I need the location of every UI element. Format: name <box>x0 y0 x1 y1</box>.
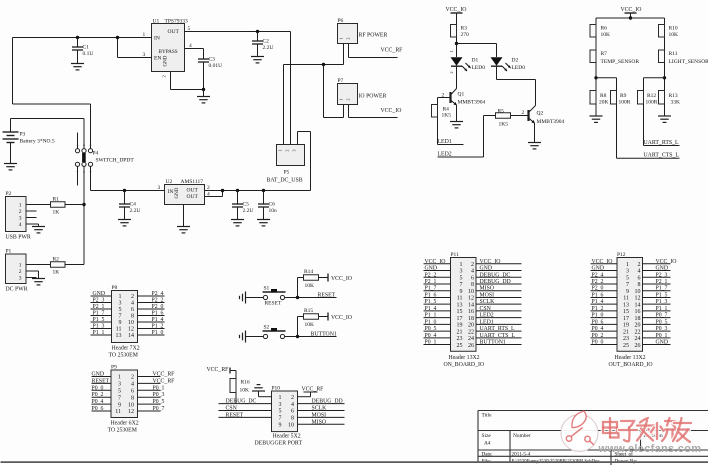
svg-text:P0_6: P0_6 <box>92 406 104 412</box>
svg-text:8: 8 <box>131 314 134 320</box>
svg-text:P2_1: P2_1 <box>93 304 105 310</box>
svg-text:TEMP_SENSOR: TEMP_SENSOR <box>601 59 640 65</box>
svg-text:15: 15 <box>457 309 463 315</box>
svg-text:15: 15 <box>623 309 629 315</box>
svg-text:P0_2: P0_2 <box>592 333 604 339</box>
svg-text:C3: C3 <box>209 57 216 63</box>
svg-text:UART_RTS_L: UART_RTS_L <box>480 326 516 332</box>
svg-text:UART_CTS_L: UART_CTS_L <box>480 333 516 339</box>
svg-text:3: 3 <box>279 402 282 408</box>
svg-text:3: 3 <box>19 276 22 282</box>
svg-text:R1: R1 <box>53 197 60 203</box>
svg-text:P2_2: P2_2 <box>152 298 164 304</box>
svg-text:P0_4: P0_4 <box>592 326 604 332</box>
svg-text:www.elecfans.com: www.elecfans.com <box>598 443 702 455</box>
svg-text:2: 2 <box>162 75 167 77</box>
svg-text:SCLK: SCLK <box>312 406 328 412</box>
svg-text:2: 2 <box>131 294 134 300</box>
svg-text:2.2U: 2.2U <box>263 45 274 51</box>
svg-text:P1_2: P1_2 <box>152 324 164 330</box>
svg-text:Header 13X2: Header 13X2 <box>615 355 646 361</box>
svg-text:GND: GND <box>92 372 105 378</box>
svg-text:P6: P6 <box>338 18 344 24</box>
svg-text:VCC_IO: VCC_IO <box>446 7 467 13</box>
svg-text:VCC_RF: VCC_RF <box>153 378 176 384</box>
svg-text:P0_6: P0_6 <box>592 319 604 325</box>
svg-text:P0_3: P0_3 <box>656 326 668 332</box>
svg-text:10K: 10K <box>305 283 315 289</box>
svg-text:VCC_IO: VCC_IO <box>381 108 402 114</box>
svg-text:GND: GND <box>425 266 438 272</box>
svg-text:12: 12 <box>468 296 474 302</box>
svg-text:Size: Size <box>482 433 492 439</box>
svg-text:P2_2: P2_2 <box>592 279 604 285</box>
svg-text:P2_1: P2_1 <box>656 279 668 285</box>
svg-text:LED0: LED0 <box>512 65 526 71</box>
svg-text:2011-5-4: 2011-5-4 <box>512 452 531 458</box>
svg-text:P1_1: P1_1 <box>656 306 668 312</box>
svg-text:RESET: RESET <box>318 293 336 299</box>
svg-text:P4: P4 <box>93 151 99 157</box>
svg-text:23: 23 <box>623 336 629 342</box>
svg-text:3: 3 <box>460 269 463 275</box>
svg-text:Date:: Date: <box>482 452 494 458</box>
svg-text:S1: S1 <box>264 286 270 292</box>
svg-text:22: 22 <box>635 329 641 335</box>
svg-text:R12: R12 <box>647 93 656 99</box>
svg-text:10K: 10K <box>240 388 250 394</box>
svg-text:10K: 10K <box>601 32 611 38</box>
svg-text:LED2: LED2 <box>480 313 494 319</box>
svg-text:P1_6: P1_6 <box>425 292 437 298</box>
svg-text:2: 2 <box>285 150 290 152</box>
svg-text:RESET: RESET <box>92 378 110 384</box>
svg-text:11: 11 <box>115 409 121 415</box>
svg-text:R8: R8 <box>600 93 607 99</box>
svg-text:16: 16 <box>468 309 474 315</box>
svg-text:21: 21 <box>623 329 629 335</box>
svg-text:3: 3 <box>118 382 121 388</box>
svg-text:DEBUG_DD: DEBUG_DD <box>480 279 511 285</box>
svg-text:14: 14 <box>635 302 641 308</box>
svg-text:6: 6 <box>471 275 474 281</box>
svg-text:OUT: OUT <box>187 194 199 200</box>
svg-text:CSN: CSN <box>226 406 238 412</box>
svg-text:DEBUG_DD: DEBUG_DD <box>312 399 343 405</box>
svg-text:BAT_DC_USB: BAT_DC_USB <box>267 178 303 184</box>
svg-text:2: 2 <box>471 262 474 268</box>
svg-text:P2: P2 <box>6 191 12 197</box>
svg-text:2: 2 <box>291 395 294 401</box>
svg-text:13: 13 <box>457 302 463 308</box>
svg-text:TO 2530EM: TO 2530EM <box>108 428 137 434</box>
svg-text:VCC_IO: VCC_IO <box>425 259 446 265</box>
svg-text:1K5: 1K5 <box>442 113 452 119</box>
svg-text:14: 14 <box>468 302 474 308</box>
svg-text:Q2: Q2 <box>537 111 544 117</box>
svg-text:10: 10 <box>288 423 294 429</box>
svg-text:R6: R6 <box>601 26 608 32</box>
svg-text:CSN: CSN <box>480 306 492 312</box>
svg-text:TO 2530EM: TO 2530EM <box>109 353 138 359</box>
svg-text:0.1U: 0.1U <box>83 51 94 57</box>
svg-text:P1_4: P1_4 <box>592 299 604 305</box>
svg-text:VCC_IO: VCC_IO <box>592 259 613 265</box>
svg-text:100R: 100R <box>646 100 658 106</box>
svg-text:P0_7: P0_7 <box>153 406 165 412</box>
svg-text:20: 20 <box>468 323 474 329</box>
svg-text:6: 6 <box>131 389 134 395</box>
svg-text:P0_2: P0_2 <box>92 392 104 398</box>
svg-text:IO POWER: IO POWER <box>359 94 387 100</box>
svg-text:TPS79333: TPS79333 <box>165 19 188 25</box>
svg-text:24: 24 <box>635 336 641 342</box>
svg-text:1K: 1K <box>53 210 60 216</box>
svg-text:GND: GND <box>592 266 605 272</box>
svg-text:23: 23 <box>457 336 463 342</box>
svg-text:P1_0: P1_0 <box>152 330 164 336</box>
svg-text:R16: R16 <box>241 380 250 386</box>
svg-text:1: 1 <box>339 38 344 40</box>
svg-text:GND: GND <box>480 266 493 272</box>
svg-text:P2_0: P2_0 <box>592 286 604 292</box>
svg-text:C5: C5 <box>243 202 250 208</box>
svg-text:10n: 10n <box>269 208 278 214</box>
svg-text:P1_7: P1_7 <box>425 286 437 292</box>
svg-text:2.2U: 2.2U <box>243 208 254 214</box>
svg-text:VCC_RF: VCC_RF <box>153 372 176 378</box>
svg-text:17: 17 <box>623 316 629 322</box>
svg-text:5: 5 <box>119 307 122 313</box>
svg-text:13: 13 <box>623 302 629 308</box>
svg-text:BUTTON1: BUTTON1 <box>480 340 506 346</box>
svg-text:2: 2 <box>346 38 351 40</box>
svg-text:P1_0: P1_0 <box>425 319 437 325</box>
svg-text:VCC_IO: VCC_IO <box>331 276 352 282</box>
svg-text:5: 5 <box>118 389 121 395</box>
svg-text:UART_RTS_L: UART_RTS_L <box>644 140 680 146</box>
svg-text:LED0: LED0 <box>472 65 486 71</box>
svg-text:6: 6 <box>638 275 641 281</box>
svg-text:P2_3: P2_3 <box>656 272 668 278</box>
svg-text:P0_0: P0_0 <box>92 385 104 391</box>
svg-text:14: 14 <box>128 333 134 339</box>
svg-text:AMS1117: AMS1117 <box>181 179 204 185</box>
svg-text:VCC_RF: VCC_RF <box>302 387 325 393</box>
svg-text:P0_1: P0_1 <box>656 333 668 339</box>
svg-text:P0_3: P0_3 <box>153 392 165 398</box>
svg-text:VCC_RF: VCC_RF <box>381 48 404 54</box>
svg-text:DEBUGGER PORT: DEBUGGER PORT <box>255 441 303 447</box>
svg-text:C2: C2 <box>263 39 270 45</box>
svg-text:P1_1: P1_1 <box>425 313 437 319</box>
svg-text:1: 1 <box>118 375 121 381</box>
svg-text:GND: GND <box>93 291 106 297</box>
svg-text:Header 6X2: Header 6X2 <box>111 421 139 427</box>
svg-text:Battery 3*NO.5: Battery 3*NO.5 <box>20 139 55 145</box>
svg-text:4: 4 <box>19 222 22 228</box>
svg-text:S2: S2 <box>264 325 270 331</box>
svg-text:Header 5X2: Header 5X2 <box>273 434 301 440</box>
svg-text:MOSI: MOSI <box>312 412 327 418</box>
svg-text:3: 3 <box>119 301 122 307</box>
svg-text:ON_BOARD_IO: ON_BOARD_IO <box>444 362 485 368</box>
svg-text:GND: GND <box>656 340 669 346</box>
svg-text:P1_7: P1_7 <box>656 286 668 292</box>
svg-text:LIGHT_SENSOR: LIGHT_SENSOR <box>669 59 708 65</box>
svg-text:P12: P12 <box>617 252 626 258</box>
svg-text:270: 270 <box>461 32 470 38</box>
svg-text:VCC_IO: VCC_IO <box>621 7 642 13</box>
svg-text:2: 2 <box>19 269 22 275</box>
svg-text:2: 2 <box>522 110 525 116</box>
svg-text:U2: U2 <box>166 179 173 185</box>
svg-text:P0_1: P0_1 <box>425 340 437 346</box>
svg-text:19: 19 <box>457 323 463 329</box>
svg-text:10: 10 <box>635 289 641 295</box>
svg-text:P0_0: P0_0 <box>592 340 604 346</box>
svg-text:P2_0: P2_0 <box>152 304 164 310</box>
svg-text:Header 7X2: Header 7X2 <box>112 346 140 352</box>
svg-text:4: 4 <box>638 269 641 275</box>
svg-text:DC PWR: DC PWR <box>6 287 28 293</box>
svg-text:P11: P11 <box>451 252 460 258</box>
svg-text:R2: R2 <box>53 257 60 263</box>
svg-text:DEBUG_DC: DEBUG_DC <box>480 272 511 278</box>
svg-text:Header 13X2: Header 13X2 <box>449 355 480 361</box>
svg-text:VCC_RF: VCC_RF <box>207 367 230 373</box>
svg-text:2: 2 <box>19 209 22 215</box>
svg-text:33K: 33K <box>671 100 681 106</box>
svg-text:9: 9 <box>626 289 629 295</box>
svg-text:VCC_IO: VCC_IO <box>656 259 677 265</box>
svg-text:11: 11 <box>623 296 629 302</box>
svg-text:R11: R11 <box>669 51 678 57</box>
svg-text:8: 8 <box>638 282 641 288</box>
svg-text:12: 12 <box>128 327 134 333</box>
svg-text:UART_CTS_L: UART_CTS_L <box>644 153 680 159</box>
svg-text:26: 26 <box>468 343 474 349</box>
svg-text:P1_5: P1_5 <box>656 292 668 298</box>
svg-text:9: 9 <box>119 320 122 326</box>
svg-text:0.01U: 0.01U <box>209 63 223 69</box>
svg-text:1: 1 <box>119 294 122 300</box>
svg-text:OUT: OUT <box>187 188 199 194</box>
svg-text:D1: D1 <box>472 58 479 64</box>
svg-text:P9: P9 <box>111 365 117 371</box>
svg-text:10K: 10K <box>305 322 315 328</box>
svg-text:R9: R9 <box>620 93 627 99</box>
svg-text:IN: IN <box>154 36 160 42</box>
svg-text:VCC_IO: VCC_IO <box>480 259 501 265</box>
svg-text:GND: GND <box>656 266 669 272</box>
svg-text:Title: Title <box>482 413 493 419</box>
svg-text:P0_5: P0_5 <box>656 319 668 325</box>
svg-text:P1: P1 <box>6 249 12 255</box>
svg-text:R3: R3 <box>461 26 468 32</box>
svg-text:3: 3 <box>626 269 629 275</box>
svg-text:P0_7: P0_7 <box>656 313 668 319</box>
svg-text:16: 16 <box>635 309 641 315</box>
svg-text:1: 1 <box>339 99 344 101</box>
svg-text:4: 4 <box>131 301 134 307</box>
svg-text:25: 25 <box>623 343 629 349</box>
svg-text:5: 5 <box>460 275 463 281</box>
svg-text:LED1: LED1 <box>438 139 452 145</box>
svg-text:10: 10 <box>128 320 134 326</box>
svg-text:LED2: LED2 <box>438 152 452 158</box>
svg-text:VCC_IO: VCC_IO <box>331 315 352 321</box>
svg-text:2: 2 <box>346 99 351 101</box>
svg-text:1: 1 <box>449 51 454 53</box>
svg-text:P5: P5 <box>284 170 290 176</box>
svg-text:8: 8 <box>291 416 294 422</box>
svg-text:19: 19 <box>623 323 629 329</box>
svg-text:OUT: OUT <box>168 29 180 35</box>
svg-text:5: 5 <box>626 275 629 281</box>
svg-text:R13: R13 <box>669 93 678 99</box>
svg-text:1K5: 1K5 <box>499 122 509 128</box>
svg-text:P8: P8 <box>112 285 118 291</box>
svg-text:6: 6 <box>291 409 294 415</box>
svg-text:P3: P3 <box>20 132 26 138</box>
svg-text:P10: P10 <box>272 386 281 392</box>
svg-text:P1_1: P1_1 <box>93 330 105 336</box>
svg-text:3: 3 <box>158 185 161 191</box>
svg-text:25: 25 <box>457 343 463 349</box>
svg-text:P2_4: P2_4 <box>592 272 604 278</box>
svg-text:7: 7 <box>279 416 282 422</box>
svg-text:1: 1 <box>279 395 282 401</box>
svg-text:P1_3: P1_3 <box>93 324 105 330</box>
svg-text:R5: R5 <box>498 109 505 115</box>
svg-text:P1_4: P1_4 <box>152 317 164 323</box>
svg-text:26: 26 <box>635 343 641 349</box>
svg-text:P1_5: P1_5 <box>93 317 105 323</box>
svg-text:MMBT3904: MMBT3904 <box>458 100 486 106</box>
svg-text:10K: 10K <box>669 32 679 38</box>
svg-text:P0_5: P0_5 <box>153 399 165 405</box>
svg-text:Number: Number <box>513 433 531 439</box>
svg-text:18: 18 <box>635 316 641 322</box>
svg-text:LED1: LED1 <box>480 319 494 325</box>
svg-text:9: 9 <box>279 423 282 429</box>
svg-text:P2_2: P2_2 <box>425 272 437 278</box>
svg-text:1: 1 <box>19 263 22 269</box>
svg-text:2: 2 <box>638 262 641 268</box>
svg-text:P1_5: P1_5 <box>425 299 437 305</box>
svg-text:P0_5: P0_5 <box>425 326 437 332</box>
svg-text:P0_1: P0_1 <box>153 385 165 391</box>
svg-text:P1_4: P1_4 <box>425 306 437 312</box>
svg-text:RESET: RESET <box>226 412 244 418</box>
svg-text:P2_3: P2_3 <box>93 298 105 304</box>
svg-text:SWITCH_DPDT: SWITCH_DPDT <box>96 158 135 164</box>
svg-text:C4: C4 <box>130 202 137 208</box>
svg-text:20: 20 <box>635 323 641 329</box>
svg-text:R7: R7 <box>601 51 608 57</box>
svg-text:R14: R14 <box>304 269 313 275</box>
svg-text:GND: GND <box>164 55 169 66</box>
svg-text:R15: R15 <box>304 308 313 314</box>
svg-text:MISO: MISO <box>312 419 327 425</box>
svg-text:2: 2 <box>449 72 454 74</box>
svg-text:RESET: RESET <box>265 301 282 307</box>
svg-text:BUTTON1: BUTTON1 <box>311 332 337 338</box>
svg-text:7: 7 <box>460 282 463 288</box>
svg-text:MISO: MISO <box>480 286 495 292</box>
svg-text:7: 7 <box>118 395 121 401</box>
svg-text:USB PWR: USB PWR <box>6 235 31 241</box>
svg-text:24: 24 <box>468 336 474 342</box>
svg-text:U1: U1 <box>153 19 160 25</box>
svg-text:A4: A4 <box>484 441 491 447</box>
svg-text:DEBUG_DC: DEBUG_DC <box>226 399 257 405</box>
svg-text:21: 21 <box>457 329 463 335</box>
svg-text:1: 1 <box>19 203 22 209</box>
svg-text:2.2U: 2.2U <box>130 208 141 214</box>
svg-text:22: 22 <box>468 329 474 335</box>
svg-text:D2: D2 <box>512 58 519 64</box>
svg-text:4: 4 <box>131 382 134 388</box>
svg-text:1K: 1K <box>53 270 60 276</box>
svg-text:P1_7: P1_7 <box>93 311 105 317</box>
svg-text:8: 8 <box>471 282 474 288</box>
svg-text:12: 12 <box>635 296 641 302</box>
svg-text:1: 1 <box>626 262 629 268</box>
svg-text:9: 9 <box>460 289 463 295</box>
svg-text:13: 13 <box>116 333 122 339</box>
svg-text:P2_4: P2_4 <box>152 291 164 297</box>
svg-text:12: 12 <box>128 409 134 415</box>
svg-text:C6: C6 <box>269 202 276 208</box>
svg-text:P2_1: P2_1 <box>425 279 437 285</box>
svg-text:7: 7 <box>626 282 629 288</box>
svg-text:RF POWER: RF POWER <box>359 33 388 39</box>
svg-text:4: 4 <box>291 402 294 408</box>
svg-text:SCLK: SCLK <box>480 299 496 305</box>
svg-text:7: 7 <box>119 314 122 320</box>
svg-text:P1_6: P1_6 <box>592 292 604 298</box>
svg-text:3: 3 <box>292 150 297 152</box>
svg-text:20K: 20K <box>599 100 609 106</box>
svg-text:Q1: Q1 <box>458 92 465 98</box>
svg-text:11: 11 <box>457 296 463 302</box>
svg-text:P1_3: P1_3 <box>656 299 668 305</box>
svg-text:2: 2 <box>131 375 134 381</box>
svg-text:10: 10 <box>468 289 474 295</box>
svg-text:11: 11 <box>116 327 122 333</box>
svg-text:4: 4 <box>471 269 474 275</box>
svg-text:R10: R10 <box>669 26 678 32</box>
svg-text:BYPASS: BYPASS <box>159 49 178 55</box>
svg-text:MMBT3904: MMBT3904 <box>537 119 565 125</box>
svg-text:OUT_BOARD_IO: OUT_BOARD_IO <box>609 362 653 368</box>
svg-text:10: 10 <box>128 402 134 408</box>
svg-text:P1_2: P1_2 <box>592 306 604 312</box>
svg-text:GND: GND <box>175 187 180 198</box>
svg-text:EN: EN <box>154 56 161 62</box>
svg-text:17: 17 <box>457 316 463 322</box>
svg-text:P1_6: P1_6 <box>152 311 164 317</box>
svg-text:1: 1 <box>460 262 463 268</box>
svg-text:8: 8 <box>131 395 134 401</box>
svg-text:P0_4: P0_4 <box>92 399 104 405</box>
svg-text:100R: 100R <box>619 100 631 106</box>
svg-text:IN: IN <box>168 189 174 195</box>
svg-text:6: 6 <box>131 307 134 313</box>
svg-text:18: 18 <box>468 316 474 322</box>
